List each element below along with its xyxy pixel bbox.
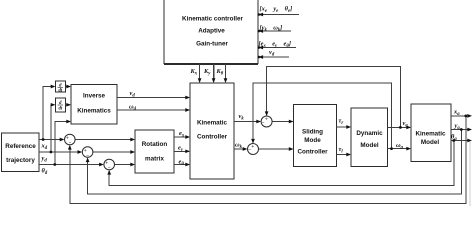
arrowhead C row into RM <box>130 163 135 167</box>
arrowhead v_k into sum D <box>256 120 261 124</box>
wire stub input v_d <box>259 56 289 58</box>
wire theta_a output <box>451 140 470 142</box>
sum junction B <box>82 147 93 158</box>
wire sum D to Sliding Mode Controller <box>272 121 292 123</box>
svg-text:Model: Model <box>360 142 378 149</box>
label stub [v_k omega_k] <box>260 25 283 34</box>
label Reference trajectory <box>5 143 36 164</box>
arrowhead y_a feedback into sum B bottom <box>86 157 90 162</box>
svg-text:Kinematics: Kinematics <box>77 108 111 115</box>
wire omega_a Dynamic Model to Kinematic Model <box>388 148 410 150</box>
sum junction C <box>104 159 115 170</box>
wire tap x_d to d/dt 1 <box>43 87 54 140</box>
box: Rotation matrix <box>135 130 174 173</box>
arrowhead sum E into SMC <box>289 147 294 151</box>
arrowhead omega_d into KC <box>185 108 190 112</box>
label omega_a <box>396 142 404 151</box>
arrowhead omega_k into sum E <box>243 147 248 151</box>
signs sum E <box>248 145 254 154</box>
arrowhead omega_a feedback into sum E top <box>251 139 255 144</box>
arrowhead tau_l into DM <box>346 153 351 157</box>
wire tau_l SMC to Dynamic Model <box>337 154 350 156</box>
sum junction A <box>65 134 76 145</box>
wire e_theta Rotation matrix to Kinematic Controller <box>174 164 189 166</box>
svg-text:Controller: Controller <box>197 134 228 141</box>
arrowhead into sum A <box>60 138 65 142</box>
arrowhead tau_r into DM <box>346 125 351 129</box>
box: Dynamic Model <box>351 108 388 166</box>
label stub [e_x e_y e_theta] <box>259 41 291 50</box>
junction dot tap theta_d <box>53 163 56 166</box>
wire v_a Dynamic Model to Kinematic Model <box>388 126 410 128</box>
wire omega_a feedback to sum E <box>253 83 392 149</box>
svg-text:−: − <box>86 154 89 159</box>
stray scan line right edge <box>469 142 471 206</box>
label theta_d <box>42 168 48 177</box>
arrowhead e_x into KC <box>185 135 190 139</box>
arrowhead sum D into SMC <box>289 120 294 124</box>
wire K_theta Gain-tuner to Kinematic Controller <box>225 64 227 82</box>
wire stub input [v_k omega_k] <box>259 30 291 32</box>
label stub [x_e y_e theta_e] <box>260 6 293 15</box>
junction dot tap y_d <box>50 151 53 154</box>
wire omega_d IK to Kinematic Controller <box>117 109 189 111</box>
label Kinematic controller (gain-tuner box) <box>182 16 243 48</box>
arrowhead into sum B <box>78 150 83 154</box>
arrowhead B row into RM <box>130 150 135 154</box>
label omega_d IK out <box>129 103 137 112</box>
wire stub input [x_e y_e theta_e] <box>259 14 299 16</box>
svg-text:−: − <box>108 166 111 171</box>
svg-text:−: − <box>262 121 265 126</box>
arrowhead tap3 into IK <box>66 120 71 124</box>
label e_y <box>178 144 184 153</box>
wire x_a feedback to sum A <box>70 116 466 203</box>
label e_theta <box>179 159 185 168</box>
wire theta_a feedback to sum C <box>109 141 454 186</box>
arrowhead into d/dt 1 <box>51 85 56 89</box>
box: Sliding Mode Controller <box>294 105 337 167</box>
box: Reference trajectory <box>2 133 40 172</box>
label Sliding Mode Controller <box>297 129 328 156</box>
label y_a <box>454 122 461 131</box>
label Kinematic Controller <box>197 120 228 141</box>
wire v_k Kinematic Controller to sum D <box>234 121 260 123</box>
svg-text:Adaptive: Adaptive <box>198 28 225 35</box>
label Kinematic Model <box>415 130 446 146</box>
label tau_l <box>339 146 344 155</box>
arrowhead stub2 into Gain-tuner <box>258 29 264 33</box>
svg-text:Controller: Controller <box>297 149 328 156</box>
wire tap theta_d to Inverse Kinematics <box>55 122 70 165</box>
arrowhead A row into RM <box>130 138 135 142</box>
svg-text:−: − <box>248 149 251 154</box>
arrowhead stub4 into Gain-tuner <box>258 55 264 59</box>
label tau_r <box>339 117 344 126</box>
wire y_a feedback to sum B <box>88 130 462 195</box>
junction dot v_a <box>399 126 402 129</box>
box: Inverse Kinematics <box>71 85 117 125</box>
svg-text:−: − <box>69 141 72 146</box>
sum junction E <box>248 144 259 155</box>
label y_d <box>41 155 48 164</box>
arrowhead d/dt2 into IK <box>66 103 71 107</box>
label e_x <box>179 130 185 139</box>
wire sum B to Rotation matrix <box>93 151 134 153</box>
wire theta_d row <box>39 164 103 166</box>
svg-text:Kinematic: Kinematic <box>415 130 446 137</box>
wire d/dt 1 to Inverse Kinematics <box>65 86 70 88</box>
svg-text:Gain-tuner: Gain-tuner <box>196 41 228 48</box>
wire v_d IK to Kinematic Controller <box>117 97 189 99</box>
box: d/dt 1 <box>55 81 65 92</box>
box: Kinematic Controller <box>190 83 234 179</box>
wire e_y Rotation matrix to Kinematic Controller <box>174 150 189 152</box>
label omega_k <box>235 142 243 151</box>
arrowhead v_a feedback into sum D top <box>265 111 269 116</box>
label stub v_d <box>269 49 275 58</box>
label Dynamic Model <box>356 130 383 149</box>
arrowhead e_theta into KC <box>185 163 190 167</box>
svg-text:Reference: Reference <box>5 143 36 150</box>
label v_d IK out <box>130 90 136 99</box>
label x_a <box>453 109 460 118</box>
arrowhead v_a into KM <box>406 126 411 130</box>
box: Kinematic Model <box>411 104 451 162</box>
arrowhead e_y into KC <box>185 149 190 153</box>
arrowhead v_d into KC <box>185 96 190 100</box>
label v_a <box>403 120 409 129</box>
wire x_d row <box>39 139 63 141</box>
svg-text:Sliding: Sliding <box>302 129 323 136</box>
wire y_a output <box>451 129 470 131</box>
signs sum B <box>84 149 90 159</box>
svg-text:Rotation: Rotation <box>142 141 168 148</box>
svg-text:trajectory: trajectory <box>6 157 35 164</box>
label K_x <box>190 68 198 77</box>
wire stub input [e_x e_y e_theta] <box>259 47 296 49</box>
wire y_d row <box>39 151 81 153</box>
svg-text:+: + <box>265 118 268 123</box>
svg-text:Inverse: Inverse <box>83 92 106 99</box>
svg-text:[xe ye θe]: [xe ye θe] <box>260 6 293 15</box>
box: Kinematic controller Adaptive Gain-tuner <box>164 0 258 65</box>
label d/dt 2 <box>58 101 63 112</box>
signs sum A <box>66 136 72 146</box>
label d/dt 1 <box>58 83 63 93</box>
arrowhead x_a out <box>467 114 472 118</box>
wire K_x Gain-tuner to Kinematic Controller <box>199 64 201 82</box>
arrowhead stub1 into Gain-tuner <box>258 13 264 17</box>
arrowhead d/dt1 into IK <box>66 85 71 89</box>
wire tau_r SMC to Dynamic Model <box>337 126 350 128</box>
svg-text:Dynamic: Dynamic <box>356 130 383 137</box>
label Rotation matrix <box>142 141 168 163</box>
svg-text:matrix: matrix <box>145 156 164 163</box>
wire e_x Rotation matrix to Kinematic Controller <box>174 136 189 138</box>
wire v_a feedback to sum D <box>267 67 401 128</box>
label theta_a <box>451 134 457 143</box>
wire K_y Gain-tuner to Kinematic Controller <box>213 64 215 82</box>
label K_theta <box>216 68 224 77</box>
label Inverse Kinematics <box>77 92 111 114</box>
sum junction D <box>261 116 272 127</box>
svg-text:Kinematic: Kinematic <box>197 120 228 127</box>
arrowhead into sum C <box>99 163 104 167</box>
wire sum A to Rotation matrix <box>75 139 134 141</box>
wire omega_k Kinematic Controller to sum E <box>234 148 246 150</box>
svg-text:Kinematic controller: Kinematic controller <box>182 16 243 23</box>
wire sum E to Sliding Mode Controller <box>259 148 293 150</box>
signs sum D <box>262 118 268 127</box>
label v_k <box>239 113 245 122</box>
arrowhead K_theta into KC top <box>224 78 228 83</box>
svg-text:[ex ey eθ]: [ex ey eθ] <box>259 41 291 50</box>
arrowhead y_a out <box>467 128 472 132</box>
junction dot x_a <box>464 115 467 118</box>
arrowhead into d/dt 2 <box>51 103 56 107</box>
svg-text:+: + <box>251 145 254 150</box>
arrowhead K_y into KC top <box>212 78 216 83</box>
label K_y <box>203 68 211 77</box>
arrowhead theta_a feedback into sum C bottom <box>107 170 111 175</box>
junction dot tap x_d <box>42 138 45 141</box>
box: d/dt 2 <box>55 98 65 112</box>
arrowhead K_x into KC top <box>198 78 202 83</box>
arrowhead stub3 into Gain-tuner <box>258 46 264 50</box>
junction dot y_a <box>460 128 463 131</box>
arrowhead omega_a into KM <box>406 147 411 151</box>
arrowhead x_a feedback into sum A bottom <box>68 145 72 150</box>
arrowhead theta_a out <box>467 139 472 143</box>
wire x_a output <box>451 115 470 117</box>
svg-text:Mode: Mode <box>304 137 321 144</box>
wire sum C to Rotation matrix <box>115 164 134 166</box>
label x_d <box>41 142 48 151</box>
wire tap y_d to d/dt 2 <box>51 105 54 152</box>
junction dot omega_a <box>390 147 393 150</box>
svg-text:Model: Model <box>421 139 439 146</box>
junction dot theta_a <box>452 139 455 142</box>
signs sum C <box>105 161 111 171</box>
wire d/dt 2 to Inverse Kinematics <box>65 104 70 106</box>
